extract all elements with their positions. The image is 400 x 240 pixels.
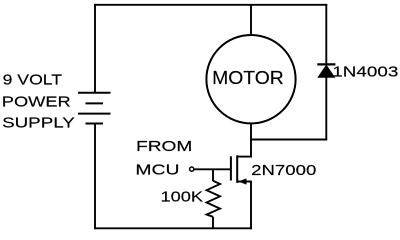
wire resistor top lead [212, 169, 214, 181]
diode D1 1N4003 cathode bar [317, 63, 335, 65]
wire bottom rail [94, 227, 252, 229]
node input terminal circle [190, 167, 194, 171]
transistor Q1 source horizontal [237, 181, 252, 183]
transistor Q1 gate bar [230, 156, 232, 180]
wire motor bottom lead [250, 123, 252, 141]
svg-text:9 VOLT: 9 VOLT [3, 71, 63, 88]
wire left rail upper [94, 4, 96, 93]
transistor Q1 2N7000 drain horizontal [237, 156, 252, 158]
motor M1 circle [206, 35, 295, 123]
wire drain lead vertical [250, 140, 252, 158]
wire source lead vertical [250, 182, 252, 230]
battery B1: short plate 2 [86, 123, 104, 125]
svg-text:POWER: POWER [2, 94, 71, 111]
battery B1 9V: long plate 1 [78, 92, 111, 94]
svg-text:100K: 100K [161, 189, 204, 206]
wire left rail lower [94, 124, 96, 230]
wire top rail [94, 4, 327, 6]
wire right rail lower [325, 77, 327, 141]
diode D1 anode triangle [318, 65, 334, 77]
wire right rail upper [325, 4, 327, 64]
svg-text:1N4003: 1N4003 [332, 63, 398, 80]
wire resistor bottom lead [212, 217, 214, 228]
svg-text:FROM: FROM [136, 138, 192, 155]
svg-text:MOTOR: MOTOR [212, 68, 284, 88]
transistor Q1 channel bar [236, 155, 238, 183]
battery B1: long plate 2 [78, 113, 111, 115]
wire motor top lead [250, 5, 252, 36]
svg-text:2N7000: 2N7000 [251, 162, 316, 179]
svg-text:MCU: MCU [135, 161, 179, 178]
svg-text:SUPPLY: SUPPLY [2, 114, 75, 131]
resistor R1 100K zigzag [207, 181, 220, 217]
battery B1: short plate 1 [86, 102, 104, 104]
wire drain junction horizontal [250, 139, 327, 141]
transistor Q1 source arrow [238, 178, 246, 184]
wire gate lead [194, 168, 231, 170]
